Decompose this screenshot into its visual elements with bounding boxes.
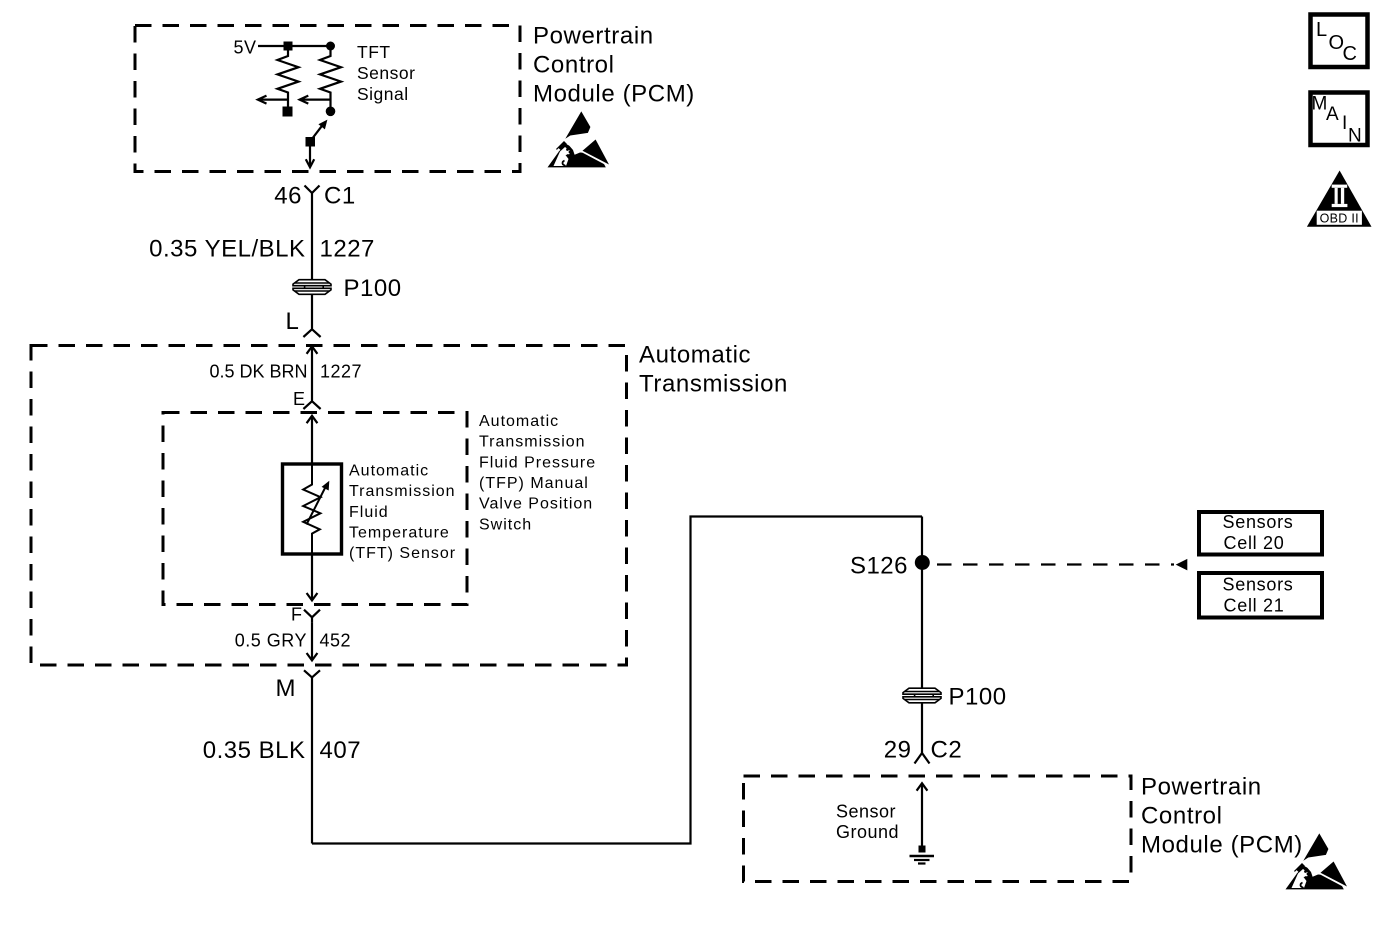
- svg-text:Fluid: Fluid: [349, 504, 389, 521]
- svg-text:Control: Control: [533, 52, 615, 79]
- svg-text:I: I: [1342, 113, 1348, 134]
- resistor R1 pull-up: [278, 47, 299, 108]
- MAIN icon box: [1311, 93, 1368, 147]
- switch pivot pad: [306, 137, 316, 147]
- terminal arrow into AT box and wire to E: [307, 346, 318, 400]
- junction dot J2 on 5V rail: [326, 42, 335, 51]
- svg-text:0.35 YEL/BLK: 0.35 YEL/BLK: [149, 236, 305, 263]
- svg-text:Automatic: Automatic: [479, 413, 559, 430]
- terminal arrow into TFP box and wire to TFT sensor: [307, 416, 318, 464]
- inline connector P100 top symbol: [293, 280, 331, 295]
- svg-text:0.5 GRY: 0.5 GRY: [235, 631, 307, 651]
- svg-text:46: 46: [274, 182, 302, 209]
- svg-text:C: C: [1343, 43, 1358, 65]
- connector C2 pin 29 inverted Y symbol: [915, 742, 930, 764]
- junction pad J1 on 5V rail: [284, 42, 293, 51]
- ESD symbol top: [548, 111, 611, 167]
- svg-text:(TFP) Manual: (TFP) Manual: [479, 475, 589, 492]
- terminal dot below R2: [326, 107, 336, 117]
- svg-text:Temperature: Temperature: [349, 525, 450, 542]
- svg-text:P100: P100: [344, 275, 402, 302]
- connector F Y symbol: [304, 610, 320, 623]
- svg-text:F: F: [291, 604, 303, 624]
- svg-text:Cell 21: Cell 21: [1224, 596, 1285, 616]
- svg-text:Sensor: Sensor: [357, 63, 415, 83]
- label Powertrain Control Module (PCM) top: [533, 23, 695, 108]
- svg-text:Switch: Switch: [479, 517, 532, 534]
- svg-text:452: 452: [320, 631, 352, 651]
- svg-text:Sensors: Sensors: [1223, 575, 1294, 595]
- label Sensor Ground: [836, 802, 899, 843]
- label TFT sensor: [349, 462, 456, 562]
- label TFP manual valve position switch: [479, 413, 596, 534]
- svg-text:P100: P100: [949, 684, 1007, 711]
- svg-text:29: 29: [884, 737, 912, 764]
- wire down to S126 and P100: [921, 517, 923, 688]
- svg-text:Valve Position: Valve Position: [479, 496, 593, 513]
- TFT thermistor arrow: [307, 481, 330, 525]
- svg-text:Sensor: Sensor: [836, 802, 896, 822]
- wire F to M with down arrowhead: [307, 623, 318, 661]
- arrow internal signal left: [258, 96, 288, 104]
- PCM top dashed box: [135, 26, 520, 172]
- svg-text:L: L: [286, 308, 300, 335]
- svg-text:Module (PCM): Module (PCM): [533, 81, 695, 108]
- svg-text:0.35 BLK: 0.35 BLK: [203, 737, 306, 764]
- svg-text:N: N: [1348, 126, 1362, 147]
- svg-text:Cell 20: Cell 20: [1224, 533, 1285, 553]
- svg-text:A: A: [1326, 104, 1339, 125]
- svg-text:Powertrain: Powertrain: [1141, 774, 1262, 801]
- svg-text:TFT: TFT: [357, 42, 391, 62]
- svg-text:Module (PCM): Module (PCM): [1141, 832, 1303, 859]
- svg-text:OBD II: OBD II: [1320, 211, 1359, 225]
- wire TFT sensor to F with down arrowhead: [307, 554, 318, 600]
- svg-text:1227: 1227: [320, 362, 362, 382]
- arrow internal signal right: [300, 96, 331, 104]
- svg-text:Transmission: Transmission: [639, 371, 788, 398]
- svg-text:C1: C1: [324, 182, 356, 209]
- switch wiper arrow: [310, 120, 327, 142]
- svg-text:S126: S126: [850, 553, 908, 580]
- svg-text:0.5 DK BRN: 0.5 DK BRN: [209, 362, 307, 382]
- resistor R2 pull-up: [320, 47, 341, 108]
- svg-text:5V: 5V: [233, 38, 256, 58]
- Sensors Cell 20 box: [1199, 512, 1322, 555]
- connector M Y symbol: [304, 670, 320, 683]
- svg-text:M: M: [276, 675, 297, 702]
- wire P100 to C2: [921, 703, 923, 742]
- svg-text:Sensors: Sensors: [1223, 512, 1294, 532]
- label Automatic Transmission: [639, 342, 788, 398]
- wire switch to pin 46 with down arrowhead: [306, 146, 314, 167]
- ESD symbol bottom: [1286, 833, 1349, 889]
- svg-text:Fluid Pressure: Fluid Pressure: [479, 454, 596, 471]
- connector E caret: [303, 401, 320, 409]
- svg-text:Transmission: Transmission: [479, 434, 586, 451]
- TFT thermistor zigzag: [303, 465, 320, 553]
- wire M down: [311, 684, 313, 844]
- TFT sensor box: [283, 464, 342, 554]
- svg-text:(TFT) Sensor: (TFT) Sensor: [349, 545, 456, 562]
- Automatic Transmission outer dashed box: [31, 346, 627, 666]
- svg-text:L: L: [1316, 19, 1328, 41]
- wire P100 to connector L: [311, 294, 313, 328]
- label TFT Sensor Signal: [357, 42, 415, 104]
- OBD II icon triangle: [1307, 171, 1372, 227]
- PCM bottom dashed box: [744, 776, 1132, 882]
- connector C1 pin 46 Y symbol: [305, 186, 320, 202]
- wire pin46 to P100: [311, 201, 313, 280]
- wire 5V feed: [258, 45, 331, 47]
- ground symbol: [910, 846, 935, 864]
- svg-text:Signal: Signal: [357, 84, 409, 104]
- LOC icon box: [1311, 15, 1368, 68]
- label Powertrain Control Module (PCM) bottom: [1141, 774, 1303, 859]
- TFP inner dashed box: [163, 413, 467, 605]
- terminal arrow up inside PCM and wire to ground: [917, 783, 928, 850]
- svg-text:Transmission: Transmission: [349, 483, 456, 500]
- inline connector P100 bottom symbol: [903, 688, 941, 703]
- svg-text:Powertrain: Powertrain: [533, 23, 654, 50]
- svg-text:Control: Control: [1141, 803, 1223, 830]
- svg-text:407: 407: [320, 737, 362, 764]
- reference arrowhead: [1176, 559, 1188, 571]
- wire bottom horizontal run: [312, 517, 922, 844]
- dashed reference wire to sensors cells: [937, 563, 1174, 565]
- svg-text:1227: 1227: [320, 236, 375, 263]
- splice S126 dot: [915, 555, 930, 570]
- connector L caret: [303, 329, 320, 337]
- terminal pad below R1: [283, 107, 293, 117]
- svg-text:Automatic: Automatic: [349, 462, 429, 479]
- Sensors Cell 21 box: [1199, 573, 1322, 618]
- svg-text:Ground: Ground: [836, 822, 899, 842]
- svg-text:C2: C2: [931, 737, 963, 764]
- svg-text:E: E: [293, 389, 306, 409]
- svg-text:Automatic: Automatic: [639, 342, 751, 369]
